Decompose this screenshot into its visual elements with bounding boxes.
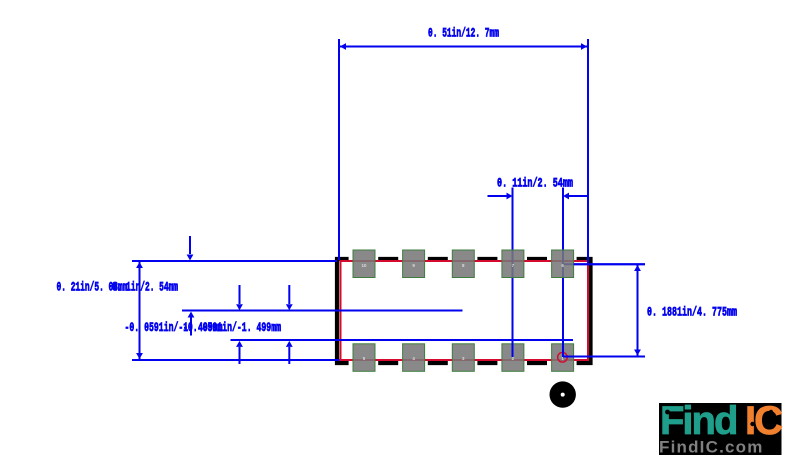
pad 10 <box>353 250 375 278</box>
dim C1 top arrowhead <box>136 262 143 268</box>
pad 6 <box>552 250 574 278</box>
dim D1 top arrow tail <box>239 285 241 304</box>
svg-text:0. 51in/12. 7mm: 0. 51in/12. 7mm <box>428 26 499 41</box>
dim A right extension <box>587 39 589 263</box>
dim B left arrowhead <box>507 193 513 200</box>
blue dimension graphics <box>132 39 645 364</box>
FindIC logo circuit dots <box>665 410 773 427</box>
dim C1 0.21in/5.08mm: dimension line <box>139 261 141 360</box>
dim A right arrowhead <box>581 43 587 50</box>
dim B extension bright segment into pad 1 <box>562 330 564 357</box>
pad 2 <box>502 344 524 372</box>
mounting hole (black filled circle with white centre) <box>550 381 576 407</box>
svg-text:FindIC.com: FindIC.com <box>659 438 764 457</box>
dim E 0.1881in/4.775mm: dimension line <box>637 264 639 356</box>
pad 7 <box>502 250 524 278</box>
dim B extension line (under pads), x=563 <box>562 188 564 358</box>
offset reference line -1.499mm <box>231 339 574 341</box>
component body outline (black dashed rectangle) <box>335 257 593 365</box>
centreline of body <box>182 310 463 312</box>
dim D2 bottom arrowhead <box>286 341 293 347</box>
dim D1 top arrowhead <box>236 304 243 310</box>
dim C2 bottom arrow tail <box>190 317 192 336</box>
dim C2 bottom arrowhead <box>188 312 195 318</box>
pin 1 marker (red circle) <box>558 353 568 363</box>
dim C2 top arrowhead <box>187 255 194 261</box>
dim B right arrowhead <box>563 193 569 200</box>
dim C2 0.1in/2.54mm: top arrow tail <box>189 236 191 254</box>
pad 9 <box>403 250 425 278</box>
dim B extension bright segment into pad 4 <box>512 330 514 357</box>
faint pad numbers <box>361 263 564 361</box>
dim B extension line (under pads), x=512.5 <box>512 188 514 358</box>
dim D2 bottom arrow tail <box>288 347 290 364</box>
dim D2 top arrow tail <box>288 285 290 304</box>
pad 5 <box>353 344 375 372</box>
dim E top extension bright segment <box>574 263 645 265</box>
dim D2 top arrowhead <box>286 304 293 310</box>
dim B 0.11in/2.54mm: left leader <box>488 195 507 197</box>
dim E bottom arrowhead <box>634 350 641 356</box>
svg-text:-0. 0591in/-1. 499mm: -0. 0591in/-1. 499mm <box>183 320 281 335</box>
dim C1 bottom extension <box>132 359 340 361</box>
FindIC logo: black background <box>659 403 782 455</box>
dim D1 bottom arrowhead <box>236 341 243 347</box>
dim E bottom extension from pin1 centre <box>563 356 645 358</box>
pad 4 <box>403 344 425 372</box>
dim A left arrowhead <box>340 43 346 50</box>
svg-text:0. 1in/2. 54mm: 0. 1in/2. 54mm <box>112 280 178 295</box>
dim E top extension (under pad5), pad5 centre to right <box>563 263 645 265</box>
pad 8 <box>452 250 474 278</box>
dim A 0.51in/12.7mm: dimension line <box>339 46 588 48</box>
dim B right leader <box>569 195 588 197</box>
svg-text:10: 10 <box>361 263 367 268</box>
svg-text:Find: Find <box>660 399 736 443</box>
dim D1 bottom arrow tail <box>239 347 241 364</box>
svg-text:0. 1881in/4. 775mm: 0. 1881in/4. 775mm <box>647 305 737 320</box>
pad 3 <box>452 344 474 372</box>
courtyard (red rectangle) <box>340 260 590 361</box>
dim E top arrowhead <box>634 265 641 271</box>
svg-text:IC: IC <box>745 399 782 443</box>
svg-text:0. 11in/2. 54mm: 0. 11in/2. 54mm <box>497 176 573 191</box>
dim C1 top extension <box>132 260 337 262</box>
dim A left extension <box>338 39 340 260</box>
dim C1 bottom arrowhead <box>136 353 143 359</box>
pads: top row <box>353 250 574 371</box>
pad 1 <box>552 344 574 372</box>
